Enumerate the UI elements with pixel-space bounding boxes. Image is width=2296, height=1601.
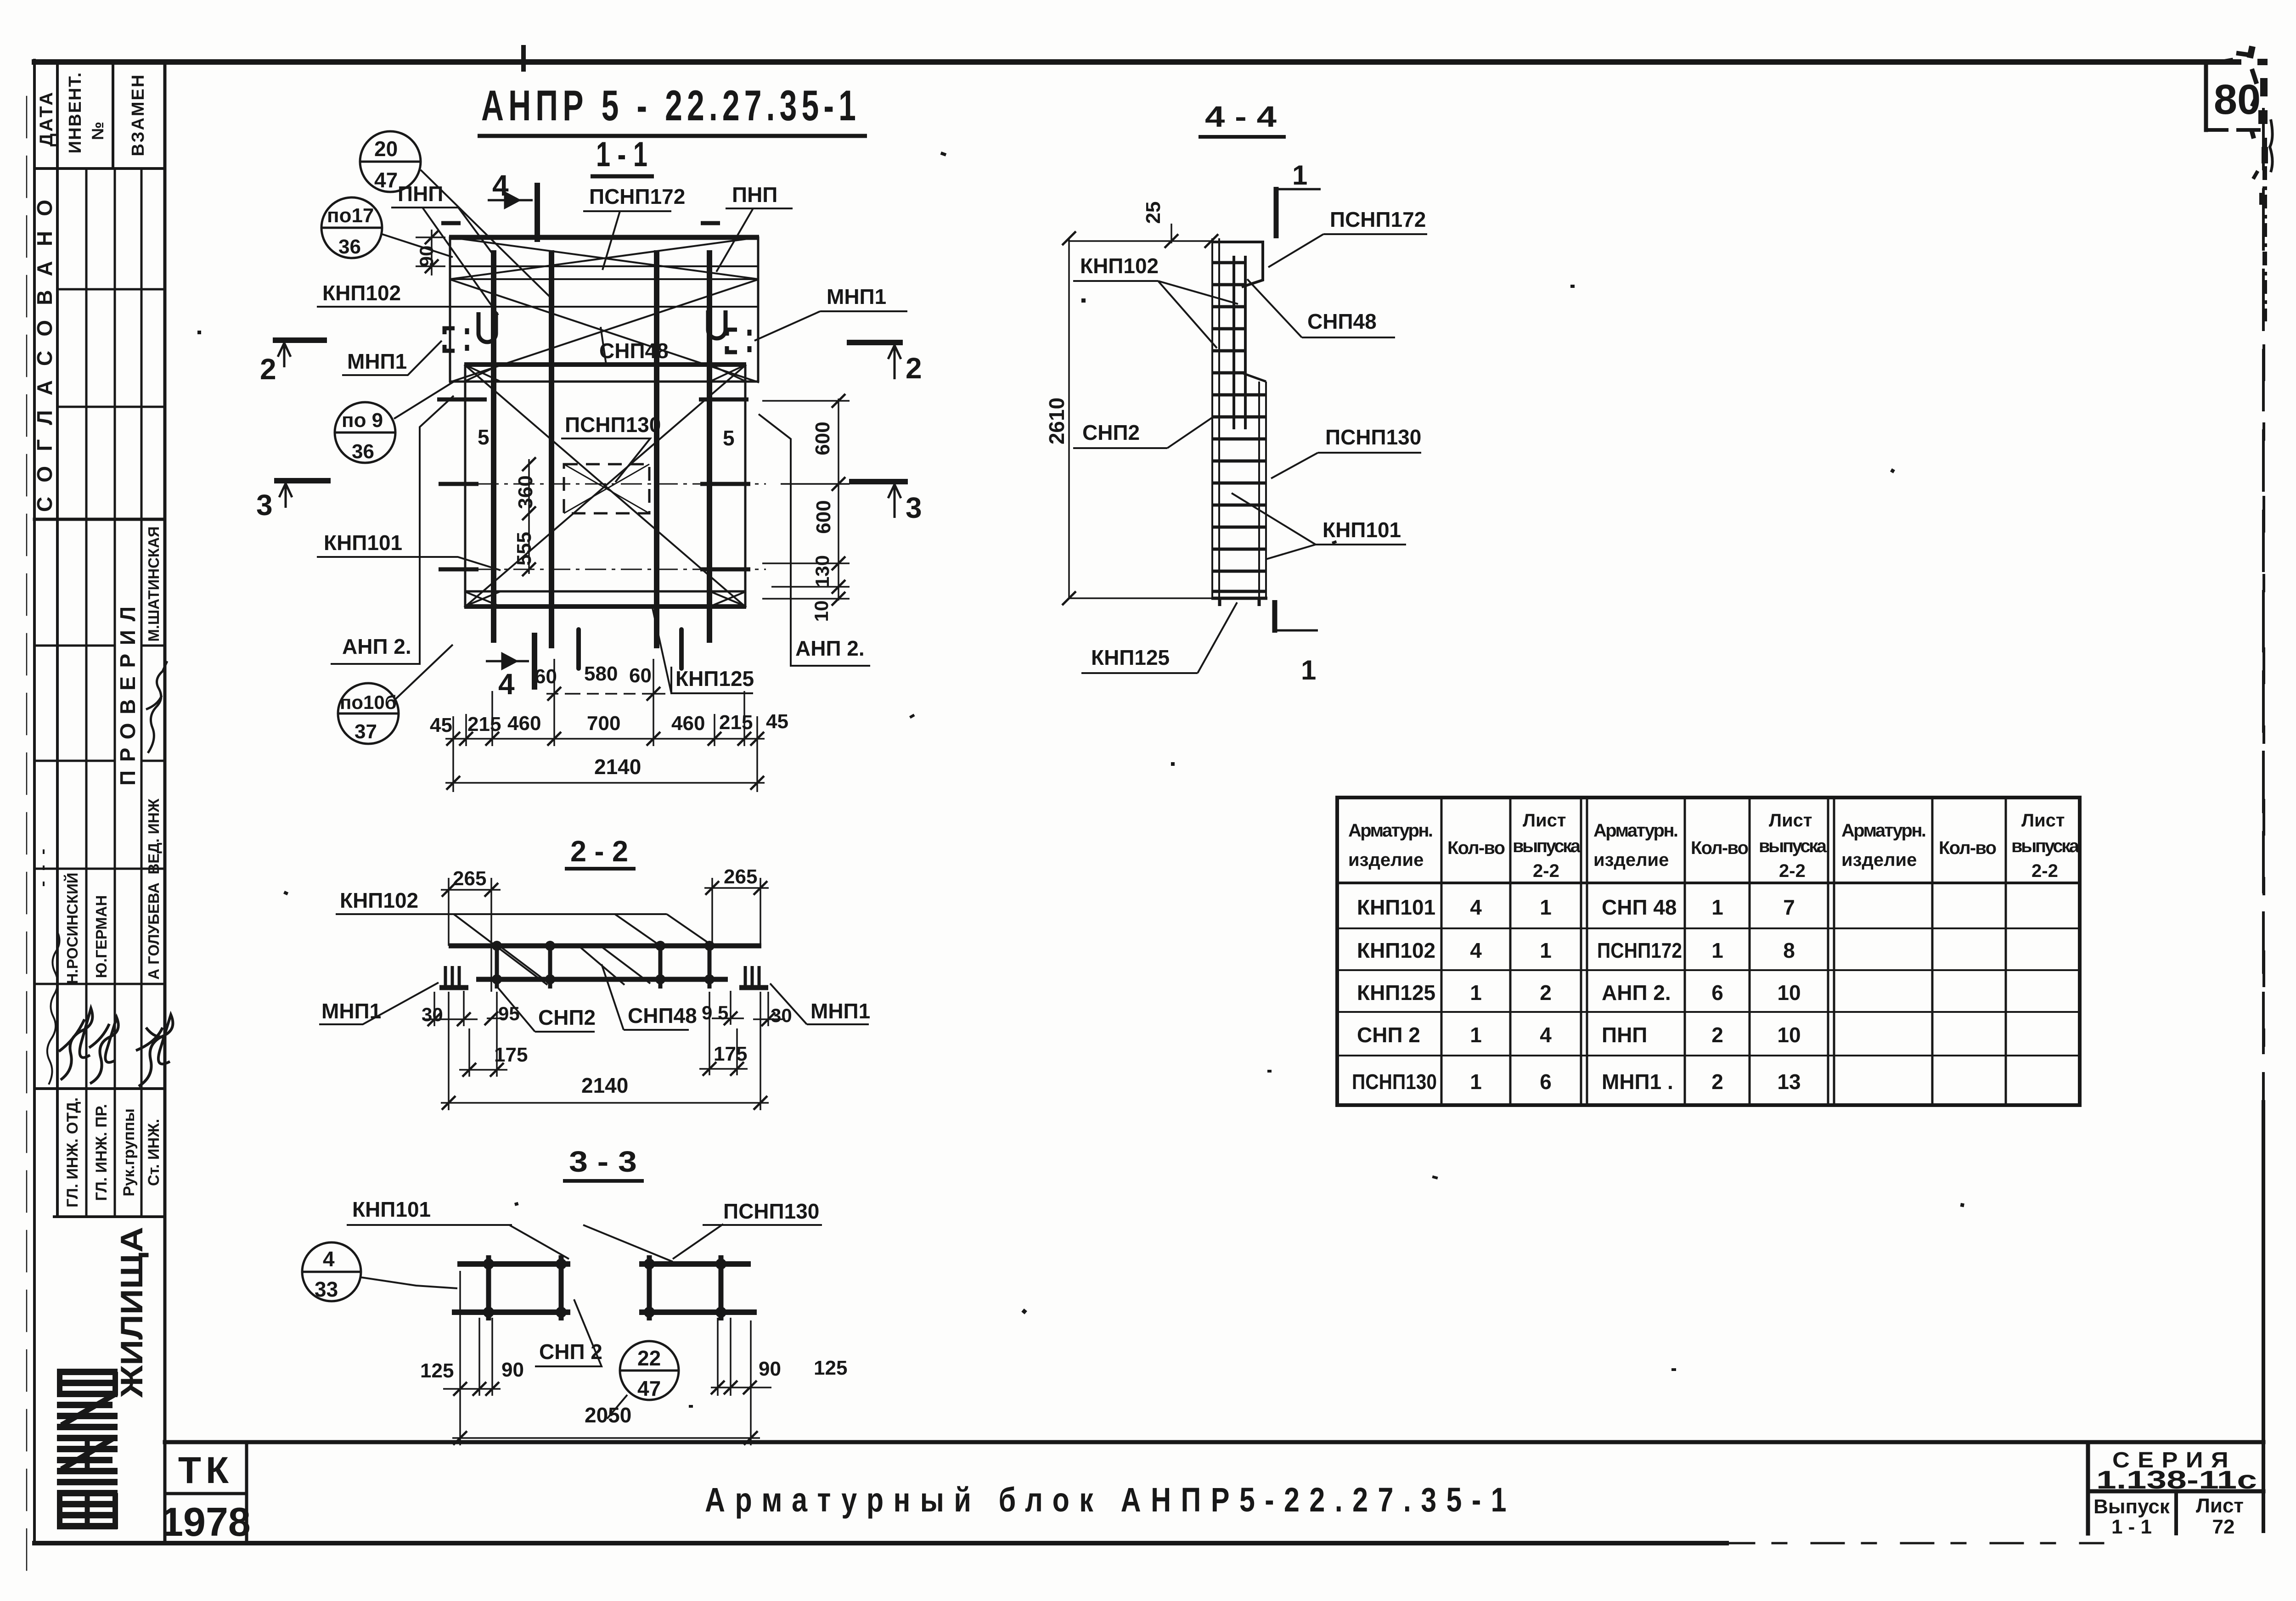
svg-text:4: 4 [1470,895,1482,919]
frame right border [2262,109,2265,1102]
frame bottom border [34,1541,1727,1545]
bar dash right axis [700,567,750,572]
callout circle po9/36 [335,381,455,463]
stamp row y630 [57,288,165,291]
svg-text:№: № [88,122,107,140]
dim line 90 125 right [711,1387,771,1388]
svg-text:ПСНП172: ПСНП172 [1597,938,1682,962]
truss vertical 1 [495,942,499,989]
section mark 4 bottom [486,654,529,668]
svg-text:1: 1 [1470,1070,1482,1094]
svg-text:20: 20 [374,137,398,161]
cage right vert 1 [647,1255,652,1320]
svg-text:2140: 2140 [594,755,641,779]
svg-text:460: 460 [671,712,705,735]
table data sheet g2 [1777,895,1801,1094]
svg-text:Арматурн.: Арматурн. [1593,820,1678,841]
stamp grid col x250 [114,169,116,1217]
logo CNIIEP striped [57,1372,118,1529]
svg-text:1: 1 [1711,895,1723,919]
cage right vert 2 [719,1255,724,1320]
svg-text:25: 25 [1142,202,1165,224]
svg-text:460: 460 [507,712,541,735]
svg-text:1: 1 [1301,655,1316,685]
ladder verticals SNP48 [1234,256,1245,429]
diagonal mid a [449,279,759,382]
svg-text:60: 60 [535,665,557,688]
svg-text:2140: 2140 [581,1073,628,1097]
svg-text:выпуска: выпуска [1513,836,1581,856]
table col lines group3 [1932,798,2006,1105]
svg-text:72: 72 [2212,1516,2235,1538]
svg-text:580: 580 [584,663,618,685]
section mark 4 top [488,183,537,242]
section mark 2 right [847,340,903,345]
rebar vertical 2 [549,250,554,648]
svg-text:3: 3 [256,489,273,522]
svg-text:ПСНП172: ПСНП172 [1330,208,1426,231]
dashed box PSNP130 [564,464,649,513]
svg-text:по17: по17 [327,204,374,227]
svg-text:Кол-во: Кол-во [1691,838,1749,858]
svg-text:90: 90 [416,246,437,267]
sheet number box 80 [2204,64,2208,130]
svg-text:2: 2 [1711,1023,1723,1047]
svg-text:по 9: по 9 [342,409,383,432]
svg-text:МНП1: МНП1 [827,285,886,309]
MNP1 bracket left [445,328,467,351]
svg-text:6: 6 [1711,981,1723,1005]
svg-text:8: 8 [1783,938,1795,962]
seria texts [2093,1448,2257,1538]
cage left vert 1 [486,1255,491,1320]
stamp header col x246 [112,62,114,169]
table data qty g2 [1711,895,1723,1094]
bottom title [705,1481,1516,1519]
svg-text:125: 125 [420,1359,454,1382]
bar top tick left [441,221,461,225]
ladder rungs lower [1213,395,1266,591]
callout circle po17/36 [321,197,453,258]
svg-text:СНП2: СНП2 [1082,421,1140,444]
svg-text:600: 600 [811,421,834,455]
svg-text:36: 36 [352,440,374,463]
signatures [44,661,173,1086]
svg-text:555: 555 [513,532,535,565]
svg-text:ЖИЛИЩА: ЖИЛИЩА [114,1227,149,1398]
lower panel left edge [464,365,467,607]
rebar vertical 4 [707,250,712,643]
stamp row y2650 [54,1215,165,1218]
svg-text:33: 33 [315,1277,338,1301]
svg-text:2: 2 [1711,1070,1723,1094]
stamp row y1406 partial [34,645,165,647]
svg-text:265: 265 [453,867,486,890]
svg-text:ГЛ. ИНЖ. ПР.: ГЛ. ИНЖ. ПР. [93,1104,110,1201]
bar dash left axis [439,567,478,572]
svg-text:10: 10 [1777,1023,1801,1047]
svg-text:125: 125 [814,1357,847,1379]
diagonal low b [464,365,746,607]
U hook left [478,312,496,342]
dim 175 left [459,992,507,1077]
svg-text:АНПР 5 - 22.27.35-1: АНПР 5 - 22.27.35-1 [481,81,861,129]
svg-text:МНП1: МНП1 [810,999,870,1023]
signature golubeva [136,1015,173,1086]
table double line 2 [1828,798,1834,1105]
scan specks [197,152,1964,1408]
svg-text:по10б: по10б [340,691,397,713]
svg-text:60: 60 [629,664,652,687]
svg-text:3 - 3: 3 - 3 [569,1145,637,1178]
svg-text:265: 265 [724,865,757,888]
scan artifact dash above frame [521,45,526,72]
rebar vertical 1 [491,250,496,643]
svg-text:изделие: изделие [1348,850,1424,870]
truss vertical 2 [548,942,552,989]
signature sogl wavy [47,931,60,1084]
svg-text:30: 30 [422,1004,443,1025]
inner line y580 [450,265,758,267]
SECTION 2-2 [565,835,636,869]
dim chain line y1609 [445,738,765,740]
seria box [2086,1442,2090,1534]
main heading [478,81,867,176]
svg-text:изделие: изделие [1841,850,1917,870]
svg-text:1978: 1978 [161,1499,251,1545]
callout circle 20/47 [360,131,551,298]
svg-text:2050: 2050 [585,1403,631,1427]
title bar top [165,1440,2263,1444]
section 1-1 labels [256,131,922,779]
bar end tick left mid [437,398,487,402]
svg-text:ИНВЕНТ.: ИНВЕНТ. [66,72,85,153]
section mark 1 bottom [1272,600,1277,633]
dim line 2050 [452,1437,760,1439]
svg-text:изделие: изделие [1593,850,1669,870]
diagonal mid b [449,279,759,382]
corner X top left lower panel [464,365,501,382]
cage right nodes [649,1264,721,1312]
svg-text:СНП 48: СНП 48 [1602,895,1677,919]
svg-text:КНП102: КНП102 [1357,938,1435,962]
svg-text:ПСНП130: ПСНП130 [723,1199,819,1223]
svg-text:4: 4 [1540,1023,1552,1047]
svg-text:90: 90 [501,1359,524,1381]
U hook right [708,310,726,338]
names col x188 [85,519,88,1217]
svg-text:Лист: Лист [2196,1494,2244,1517]
table data sheet g1 [1540,895,1552,1094]
svg-text:4 - 4: 4 - 4 [1205,100,1277,133]
cage left nodes [489,1264,561,1312]
stamp header bottom y367 [34,167,165,170]
Sh symbol right [745,966,759,985]
names col x308 [141,519,143,1217]
svg-text:4: 4 [492,169,509,202]
table outer border [1337,798,2080,1105]
upper panel bottom edge [449,381,759,383]
dim chain ticks [446,732,764,746]
svg-text:КНП101: КНП101 [1357,895,1435,919]
svg-text:10: 10 [810,601,832,622]
svg-text:Лист: Лист [1769,810,1812,831]
dashed box diagonals [564,464,649,513]
signature shatinskaya [146,661,167,753]
svg-text:45: 45 [766,710,788,733]
svg-text:М.ШАТИНСКАЯ: М.ШАТИНСКАЯ [145,526,162,641]
MNP1 bracket right [727,330,749,352]
svg-text:1 - 1: 1 - 1 [596,135,647,174]
svg-text:ДАТА: ДАТА [36,90,56,146]
dim line 125 90 left [443,1388,501,1390]
upper panel right edge [757,236,760,382]
svg-text:КНП125: КНП125 [675,667,754,691]
svg-text:22: 22 [637,1346,661,1370]
extension lines bottom [453,659,757,792]
section mark 1 top [1274,187,1279,238]
bar top tick right [701,221,720,225]
corner X bottom left [464,591,501,607]
svg-text:215: 215 [467,713,501,736]
lower panel bottom edge [464,604,746,609]
svg-text:КНП101: КНП101 [352,1197,431,1221]
table header row line [1337,882,2080,884]
stamp row y2371 [34,1087,165,1090]
stamp row y1892 [34,868,165,870]
cage left bottom bar [452,1309,570,1315]
svg-text:5: 5 [723,426,735,450]
svg-text:Арматурн.: Арматурн. [1841,820,1926,841]
svg-text:СНП48: СНП48 [628,1004,697,1028]
frame top border [34,59,2239,65]
truss diagonals [454,914,713,985]
dim 265 right [704,878,769,946]
rebar stub right bottom [679,629,684,668]
Sh symbol left [445,966,459,985]
svg-text:4: 4 [323,1247,335,1271]
corner X bottom right [710,591,746,607]
svg-text:КНП102: КНП102 [322,281,401,305]
lower panel inner line y1288 [464,590,746,593]
SECTION 3-3 [563,1145,644,1181]
panel step edge [1242,373,1266,382]
svg-text:Ю.ГЕРМАН: Ю.ГЕРМАН [93,895,110,978]
stamp grid col x308 [141,169,143,519]
svg-text:2: 2 [260,353,276,386]
inner line y608 [450,278,758,280]
svg-text:КНП102: КНП102 [340,888,418,912]
table data qty g1 [1470,895,1482,1094]
stamp grid col x188 [85,169,88,519]
svg-text:КНП101: КНП101 [1322,518,1401,542]
SECTION 1-1 [317,45,766,668]
truss vertical 4 [708,942,712,989]
svg-text:АНП 2.: АНП 2. [342,635,411,658]
svg-text:2-2: 2-2 [2032,861,2058,881]
truss node dots [497,946,709,979]
diagonal top band b [450,237,758,279]
bar end tick right mid [699,398,748,402]
svg-text:90: 90 [759,1358,781,1380]
svg-text:130: 130 [811,555,833,587]
svg-text:Арматурн.: Арматурн. [1348,820,1433,841]
svg-text:СНП48: СНП48 [1307,309,1377,333]
corner X top right lower panel [710,365,746,382]
lower panel top edge [464,362,746,367]
dim 2140 line [441,992,769,1110]
top chord [449,944,761,949]
svg-text:ТК: ТК [178,1449,233,1491]
table col lines group2 [1685,798,1750,1105]
svg-text:9 5: 9 5 [702,1002,728,1023]
TABLE [1337,798,2080,1105]
inner line y668 КНП102 level [317,306,758,308]
svg-text:3: 3 [906,491,922,524]
svg-text:АНП 2.: АНП 2. [795,636,865,660]
svg-text:2610: 2610 [1045,398,1069,444]
svg-text:37: 37 [355,720,377,743]
section mark 3 right [849,479,908,484]
svg-text:1: 1 [1292,160,1307,191]
dim 25 [1068,224,1214,243]
svg-text:КНП125: КНП125 [1357,981,1435,1005]
stamp rotated texts [33,72,163,1398]
callout circle po10b/37 [338,645,453,744]
svg-text:выпуска: выпуска [1759,836,1827,856]
rebar stub left bottom [576,629,581,668]
dim 360 555 line [528,459,530,574]
svg-text:А ГОЛУБЕВА: А ГОЛУБЕВА [145,882,162,980]
knp101 leader [347,1225,723,1262]
SECTION 4-4 [1199,100,1286,137]
svg-text:Ст. ИНЖ.: Ст. ИНЖ. [145,1119,163,1186]
diagonal top band a [450,237,758,279]
table row lines [1337,928,2080,1056]
svg-text:1: 1 [1540,895,1552,919]
svg-text:ПНП: ПНП [1602,1023,1647,1047]
svg-text:КНП125: КНП125 [1091,646,1170,669]
cage left top bar [457,1261,570,1267]
svg-text:ПНП: ПНП [732,183,777,207]
panel head [1212,242,1263,287]
svg-text:МНП1 .: МНП1 . [1602,1070,1673,1094]
svg-text:ПСНП130: ПСНП130 [565,413,661,437]
panel left edge double [1211,238,1213,599]
cage left vert 2 [559,1255,564,1320]
svg-text:4: 4 [498,668,515,701]
svg-text:95: 95 [498,1003,520,1024]
svg-text:47: 47 [637,1376,661,1400]
svg-text:2-2: 2-2 [1533,861,1559,881]
svg-text:Рук.группы: Рук.группы [120,1108,138,1197]
dim 60 580 60 line [546,693,670,695]
svg-text:ПСНП130: ПСНП130 [1352,1070,1437,1094]
dim 265 left [441,878,501,992]
svg-text:КНП102: КНП102 [1080,254,1159,278]
dim 2610 [1069,238,1212,598]
svg-text:ПСНП172: ПСНП172 [589,185,685,208]
signature rosinskiy [59,1008,92,1080]
cage right bottom bar [639,1309,757,1315]
upper panel top edge [449,235,759,240]
svg-text:АНП 2.: АНП 2. [1602,981,1671,1005]
section mark 3 left [274,478,331,483]
truss vertical 3 [658,942,663,989]
axis dash-dot y1240 [442,569,766,570]
svg-text:ГЛ. ИНЖ. ОТД.: ГЛ. ИНЖ. ОТД. [64,1097,81,1208]
svg-text:175: 175 [714,1043,747,1065]
svg-text:Арматурный блок АНПР5-22.27.: Арматурный блок АНПР5-22.27.35-1 [705,1481,1516,1519]
svg-text:175: 175 [494,1044,528,1066]
stamp inner vertical x359 [163,62,167,1543]
svg-text:5: 5 [478,425,490,449]
lower panel right edge [744,365,747,607]
table double line 1 [1581,798,1587,1105]
signature german [89,1017,118,1084]
dim 90 line [416,230,445,275]
dim 175 right [699,992,748,1075]
svg-text:Лист: Лист [2021,810,2065,831]
svg-text:36: 36 [338,236,361,258]
stamp row y2143 [34,983,165,985]
knp102 leader line [336,913,667,915]
svg-text:ПНП: ПНП [398,182,443,206]
psnp130 leader s33 [673,1224,723,1259]
svg-text:7: 7 [1783,895,1795,919]
svg-text:2 - 2: 2 - 2 [570,835,628,868]
svg-text:ВЕД. ИНЖ: ВЕД. ИНЖ [145,798,162,874]
page scan edge left [26,96,28,1570]
section 1-1 dimensions [416,230,765,792]
upper panel left edge [449,236,451,382]
diagonal low a [464,365,746,607]
svg-text:1 - 1: 1 - 1 [2111,1516,2152,1538]
cut line 3-3 dash-dot [442,483,766,485]
svg-text:45: 45 [430,714,452,736]
svg-text:МНП1: МНП1 [347,349,407,373]
svg-text:выпуска: выпуска [2011,836,2080,856]
svg-text:СНП48: СНП48 [599,339,669,363]
section mark 2 left [273,337,327,343]
svg-text:1: 1 [1540,938,1552,962]
rebar vertical 3 [654,250,659,648]
svg-text:700: 700 [587,712,620,735]
bar dash right mid2 [700,482,750,486]
svg-text:30: 30 [771,1005,792,1026]
svg-text:10: 10 [1777,981,1801,1005]
right dim chain 600 600 130 10 [762,394,850,606]
scan noise blob top right [2224,45,2268,205]
bottom chord [476,977,728,982]
svg-text:1: 1 [1470,1023,1482,1047]
callout circle 4/33 [302,1242,457,1301]
dim total line y1705 [445,782,765,784]
svg-text:Н.РОСИНСКИЙ: Н.РОСИНСКИЙ [63,872,81,984]
stamp row y1657 partial [34,760,165,762]
cage right top bar [639,1261,751,1267]
stamp row y886 [57,406,165,408]
svg-text:4: 4 [1470,938,1482,962]
callout circle 22/47 [607,1341,679,1419]
stamp row y1131 [34,518,165,521]
svg-text:ПСНП130: ПСНП130 [1325,425,1421,449]
stamp column x125 [56,62,59,1217]
svg-text:2: 2 [906,352,922,385]
bar dash left mid2 [439,482,478,486]
svg-text:Лист: Лист [1523,810,1566,831]
extension lines s33 [460,1271,751,1445]
